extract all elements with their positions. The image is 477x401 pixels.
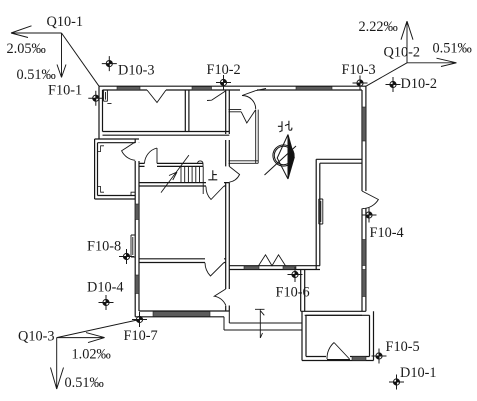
svg-text:Q10-1: Q10-1: [47, 14, 84, 30]
door D-leftroom arc: [122, 142, 136, 161]
window W-bottom: [153, 312, 210, 317]
svg-text:F10-2: F10-2: [207, 62, 241, 78]
svg-text:F10-4: F10-4: [370, 225, 404, 241]
window W-top2: [192, 87, 212, 90]
riser F10-6: [288, 267, 303, 282]
terrace step edge: [224, 311, 302, 330]
svg-text:0.51‰: 0.51‰: [17, 67, 56, 83]
F10-6 wall: [229, 266, 320, 270]
window W-right3: [362, 270, 366, 297]
svg-text:0.51‰: 0.51‰: [433, 41, 472, 57]
door right-wall swing: [362, 191, 378, 209]
hall wall above stairs: [139, 163, 203, 166]
window W-f6b: [283, 266, 296, 269]
riser symbols: [88, 56, 404, 389]
riser D10-2: [386, 77, 401, 92]
L-room top wall: [316, 159, 362, 163]
svg-text:2.22‰: 2.22‰: [359, 19, 398, 35]
riser F10-2: [216, 75, 231, 90]
window W-right2: [362, 240, 366, 266]
svg-text:F10-6: F10-6: [276, 285, 310, 301]
svg-text:F10-8: F10-8: [87, 239, 121, 255]
label up: [208, 170, 217, 180]
Q10-3 arrow group: [51, 320, 140, 390]
door D-westroom swing: [214, 289, 226, 305]
riser F10-1: [88, 91, 103, 106]
divider wall room1/room2: [185, 90, 189, 132]
column notch TL: [98, 146, 105, 152]
window W-left1: [135, 204, 139, 220]
Q10-2 arrow group: [366, 21, 457, 86]
L-room bottom wall: [301, 311, 366, 315]
window W-br: [352, 357, 366, 361]
Q10-1 arrow group: [11, 26, 99, 86]
folding door zigzag: [259, 255, 286, 266]
svg-text:2.05‰: 2.05‰: [7, 41, 46, 57]
svg-text:D10-1: D10-1: [400, 365, 437, 381]
window W-top3: [296, 87, 332, 90]
left exterior wall upper: [99, 86, 103, 139]
svg-text:1.02‰: 1.02‰: [72, 347, 111, 363]
column notch BR: [131, 192, 135, 195]
svg-text:D10-3: D10-3: [118, 63, 155, 79]
door jamb top-left: [104, 90, 112, 103]
door D-br: [327, 343, 350, 360]
riser F10-4: [362, 208, 377, 223]
svg-text:F10-7: F10-7: [124, 328, 158, 344]
door D-room2 leaf: [207, 91, 226, 101]
door D-NE-room: [242, 89, 266, 110]
window W-right1: [362, 107, 366, 141]
window W-f6a: [244, 266, 259, 269]
left lower exterior wall: [135, 139, 139, 317]
svg-text:F10-3: F10-3: [342, 62, 376, 78]
north arrow: [265, 135, 297, 180]
door D-room1 (V swing): [147, 90, 166, 103]
svg-text:0.51‰: 0.51‰: [65, 375, 104, 391]
svg-text:D10-4: D10-4: [87, 280, 124, 296]
svg-text:F10-5: F10-5: [386, 339, 420, 355]
riser D10-3: [102, 56, 117, 71]
right exterior wall: [362, 86, 366, 311]
top exterior wall: [99, 86, 366, 90]
steps down symbol: [255, 309, 265, 338]
svg-text:F10-1: F10-1: [48, 83, 82, 99]
center vertical wall: [226, 90, 230, 311]
interior wall mid-left rooms: [139, 259, 226, 263]
L-room west wall: [316, 159, 320, 269]
protruding left room: [95, 139, 139, 199]
stair lower wall: [139, 183, 229, 186]
niche window L-room: [319, 199, 323, 224]
window frame F10-8: [131, 235, 135, 257]
window W-top1: [117, 87, 140, 90]
bottom exterior wall: [135, 311, 229, 317]
riser F10-7: [132, 312, 147, 327]
label north: [278, 121, 292, 132]
riser F10-3: [353, 76, 368, 91]
riser F10-5: [372, 349, 387, 364]
door D-midroom: [205, 263, 224, 277]
door D-stair-east swing: [206, 186, 224, 200]
riser F10-8: [119, 249, 134, 264]
door D-bigroom swing: [229, 166, 239, 182]
bottom-right room: [302, 311, 374, 360]
stair direction arrow: [161, 155, 189, 193]
shaft closet: [229, 110, 259, 164]
svg-text:D10-2: D10-2: [401, 76, 438, 92]
column notch BL: [98, 187, 105, 193]
stairs: [181, 161, 203, 194]
svg-text:Q10-2: Q10-2: [384, 45, 421, 61]
riser D10-4: [99, 295, 114, 310]
svg-text:Q10-3: Q10-3: [18, 329, 55, 345]
L-room lower west wall: [301, 270, 305, 312]
interior wall top-rooms bottom: [103, 132, 230, 136]
riser D10-1: [389, 375, 404, 390]
window W-left2: [135, 275, 139, 294]
door D-hall arc: [145, 148, 158, 163]
